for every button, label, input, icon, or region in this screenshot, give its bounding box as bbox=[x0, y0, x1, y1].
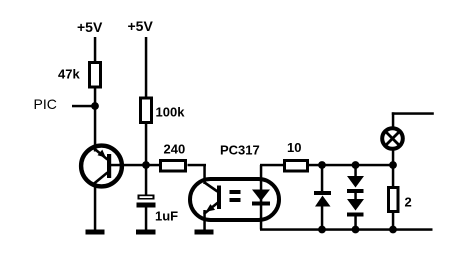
junction bottom rail at D2 bbox=[352, 226, 360, 234]
wire U1 emitter to ground bbox=[203, 210, 206, 230]
junction top rail at D1 bbox=[318, 161, 326, 169]
wire top rail to D2 bbox=[354, 165, 357, 177]
svg-text:47k: 47k bbox=[58, 67, 80, 82]
transistor Q1 collector diagonal bbox=[94, 173, 108, 185]
wire lamp to top rail bbox=[392, 149, 395, 165]
wire D2 to D3 bbox=[354, 193, 357, 201]
wire D3 to bottom rail bbox=[354, 216, 357, 231]
transistor Q1 emitter diagonal with arrow bbox=[94, 148, 108, 160]
diode D3 cathode bar bbox=[347, 213, 364, 217]
wire top rail R4 to lamp node bbox=[308, 164, 394, 167]
wire Q1 collector to ground bbox=[94, 183, 97, 230]
U1 phototransistor emitter diagonal with arrow bbox=[204, 203, 218, 215]
diode D1 triangle (up) bbox=[315, 196, 331, 207]
svg-text:10: 10 bbox=[287, 140, 301, 155]
wire from +5V to R2 bbox=[145, 37, 148, 97]
junction node A bbox=[142, 161, 150, 169]
U1 LED vertical wire bbox=[260, 165, 263, 230]
U1 phototransistor collector diagonal bbox=[205, 183, 218, 192]
wire from +5V to R1 bbox=[94, 37, 97, 62]
ground (C1) bbox=[136, 230, 156, 235]
junction bottom rail at D1 bbox=[318, 226, 326, 234]
svg-text:2: 2 bbox=[405, 195, 412, 210]
junction PIC node bbox=[91, 102, 99, 110]
resistor R4 10 bbox=[285, 161, 308, 172]
wire R3 to U1 input bbox=[188, 164, 207, 167]
svg-text:1uF: 1uF bbox=[155, 209, 178, 224]
wire R5 to bottom rail bbox=[392, 212, 395, 231]
U1 phototransistor base bar bbox=[217, 186, 221, 210]
wire node A to C1 bbox=[145, 165, 148, 195]
junction bottom rail at R5 bbox=[389, 226, 397, 234]
U1 coupling = sign bbox=[230, 190, 241, 202]
diode D3 triangle (down) bbox=[347, 199, 364, 211]
wire R2 to node A bbox=[145, 124, 148, 165]
svg-text:PIC: PIC bbox=[34, 96, 57, 112]
wire down into U1 bbox=[203, 164, 206, 184]
wire top right corner bbox=[392, 112, 434, 127]
ground (Q1) bbox=[86, 230, 105, 235]
resistor R2 100k bbox=[141, 98, 152, 123]
resistor R5 2 bbox=[389, 188, 399, 212]
wire C1 to ground bbox=[145, 208, 148, 230]
optocoupler U1 body bbox=[190, 179, 279, 220]
wire lamp node to R5 bbox=[392, 165, 395, 188]
transistor Q1 base bar bbox=[107, 154, 111, 178]
resistor R3 240 bbox=[161, 161, 186, 172]
svg-text:+5V: +5V bbox=[128, 18, 154, 34]
diode D2 cathode bar bbox=[347, 189, 364, 193]
wire D1 to bottom rail bbox=[321, 206, 324, 230]
wire top rail to D1 bbox=[321, 165, 324, 192]
transistor Q1 circle bbox=[81, 146, 122, 187]
diode D2 triangle (down) bbox=[347, 176, 364, 188]
wire PIC bbox=[72, 105, 95, 108]
svg-text:+5V: +5V bbox=[77, 19, 103, 35]
ground (U1) bbox=[195, 230, 214, 235]
lamp L1 circle bbox=[382, 128, 403, 149]
wire bottom rail bbox=[260, 228, 433, 231]
U1 LED cathode bar bbox=[252, 202, 270, 206]
svg-text:240: 240 bbox=[164, 142, 186, 157]
diode D1 cathode bar bbox=[314, 191, 331, 195]
wire Q1 base to R3 bbox=[111, 164, 161, 167]
capacitor C1 bottom plate bbox=[137, 203, 156, 208]
junction top rail at lamp bbox=[389, 161, 397, 169]
U1 LED triangle bbox=[252, 190, 270, 202]
wire U1 LED to R4 bbox=[260, 164, 285, 167]
junction top rail at D2 bbox=[352, 161, 360, 169]
svg-text:100k: 100k bbox=[156, 105, 186, 120]
capacitor C1 top plate bbox=[138, 195, 155, 200]
lamp L1 cross bbox=[385, 131, 399, 145]
svg-text:PC317: PC317 bbox=[220, 143, 260, 158]
wire R1 to Q1 bbox=[94, 89, 97, 152]
resistor R1 47k bbox=[90, 63, 101, 88]
